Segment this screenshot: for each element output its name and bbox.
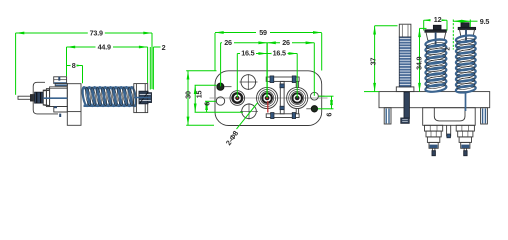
dim texts right view [369,15,490,70]
svg-text:15: 15 [194,91,203,99]
dim 30 (left, vertical) [186,70,216,72]
ring band A [43,89,49,107]
svg-text:12: 12 [434,15,442,24]
svg-text:16.5: 16.5 [241,49,254,58]
dim 59 [215,32,322,34]
axis centerline (blue) [43,97,67,99]
dim 73.9 extension lines [15,33,17,95]
pin terminal [18,96,32,99]
right terminal cap [458,23,475,42]
svg-text:6: 6 [325,113,334,117]
stud plain top [399,24,411,37]
dim 34.9 [420,27,427,29]
dim 26 left [221,42,268,44]
left connector stack [425,125,443,155]
dim text 73.9 [88,29,105,36]
right connector stack [456,125,474,155]
ring band B [50,87,68,107]
svg-text:6: 6 [202,102,211,106]
dim text 26 (left) [222,39,234,46]
left filled hole [217,83,232,90]
stud collar [396,87,414,92]
dim 44.9 line [67,46,148,48]
dim 16.5 right [267,53,297,55]
svg-text:8: 8 [72,61,76,70]
right leg [481,108,488,124]
left small hole [216,97,224,105]
center terminal cap [425,25,446,45]
dim text 16.5 (right) [272,50,288,57]
thread hatch for stud [400,39,411,85]
center spring back lines [426,42,446,90]
dim text 26 (right) [280,39,292,46]
svg-text:16.5: 16.5 [273,49,286,58]
stud threaded shaft [399,37,411,87]
right spring [455,34,476,93]
dim text 8 [71,62,77,69]
terminal 2 (center) [257,87,278,108]
mounting bracket (rounded flange) [33,82,58,114]
dim text 16.5 (left) [240,50,256,57]
right filled hole [306,106,317,112]
lower busbar [266,81,299,118]
svg-text:26: 26 [224,38,232,47]
terminal stem through plate (right) [465,92,467,111]
spring (horizontal coil) [81,87,137,107]
red stem line below terminal 2 [267,101,269,113]
terminal 3 [287,87,308,108]
dim 2 extension+leader [149,47,151,90]
svg-text:73.9: 73.9 [90,28,103,37]
dim 44.9 extension lines [66,47,68,76]
left leg [384,108,391,124]
spring back lines (dark) [84,87,134,106]
dim 9.5 [452,20,454,50]
dim 6 (right vertical) [319,95,334,97]
right small hole [311,92,325,100]
base plate [379,92,490,108]
top boss [54,77,68,86]
washer cup [134,84,148,113]
main body block [50,84,81,126]
dim 16.5 left [237,53,267,55]
bolt end (hatched) [134,91,152,104]
upper busbar [266,76,299,114]
dim 26 right [267,42,314,44]
stadium plate [215,71,322,126]
svg-text:34.9: 34.9 [415,57,424,70]
svg-text:37: 37 [369,58,378,66]
svg-text:59: 59 [259,28,267,37]
dim texts middle view [183,28,333,147]
dim text 44.9 [96,43,114,50]
center spring [425,38,447,93]
lower hole (phi 8) [240,103,258,119]
dim texts left view [71,28,166,70]
svg-text:2: 2 [162,43,166,52]
right spring back lines [456,38,475,91]
stud below plate + nut [401,92,410,123]
svg-text:30: 30 [183,91,192,99]
terminal 1 [230,91,245,106]
svg-text:26: 26 [282,38,290,47]
leader 2-phi8 [237,103,258,129]
extension lines down into view [214,33,216,71]
dim 37 [375,25,398,27]
svg-text:44.9: 44.9 [98,43,111,52]
dim 15 (vertical) [195,84,217,86]
dim 8 line [67,65,83,67]
row centerline (gray) [210,97,328,99]
upper hole (phi 8) [240,74,258,90]
dim 6 (left vertical) [205,100,216,102]
dim 73.9 line [16,32,152,34]
lower step details [54,107,68,118]
dim text 12 [431,15,442,22]
dim 12 [423,20,425,30]
center stem below housing [447,125,451,138]
svg-text:9.5: 9.5 [480,17,490,26]
dim text 59 [256,29,270,36]
crimp connector (hatched) [31,92,44,103]
housing below plate [423,108,476,126]
